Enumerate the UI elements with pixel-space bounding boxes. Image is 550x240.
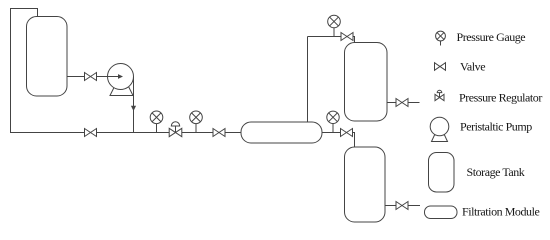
storage tank T3 (lower right): [345, 147, 386, 222]
valve V5 (module outlet): [341, 129, 353, 137]
pressure gauge G4 (module outlet): [327, 111, 339, 132]
peristaltic pump P1: [108, 64, 134, 96]
valve V6 (upper tank outlet): [396, 99, 408, 107]
svg-text:Peristaltic Pump: Peristaltic Pump: [460, 120, 532, 134]
svg-text:Valve: Valve: [460, 60, 485, 74]
svg-text:Pressure Gauge: Pressure Gauge: [457, 30, 526, 44]
svg-text:Storage Tank: Storage Tank: [467, 165, 525, 179]
wire recirculation loop and main feed line: [11, 9, 242, 133]
legend storage tank icon: [429, 153, 455, 193]
pressure gauge G2: [190, 111, 203, 133]
valve V4 (top branch): [341, 33, 353, 41]
pressure gauge G1: [150, 111, 163, 133]
valve V3 (before module): [213, 129, 225, 137]
wire module outlet to bottom tank: [322, 133, 355, 148]
wire upper tank outlet: [387, 102, 420, 104]
legend filtration module icon: [425, 206, 458, 219]
wire module top branch riser: [307, 37, 309, 123]
storage tank T1: [27, 17, 68, 97]
pressure gauge G3 (top branch): [328, 15, 341, 36]
valve V2 (main line): [85, 129, 97, 137]
svg-text:Pressure Regulator: Pressure Regulator: [459, 91, 542, 105]
legend valve icon: [435, 63, 446, 71]
legend pressure gauge icon: [436, 31, 446, 45]
valve V1 (tank T1 outlet): [85, 73, 97, 81]
wire top branch to upper tank: [308, 37, 355, 43]
legend pressure regulator icon: [435, 90, 444, 100]
svg-text:Filtration Module: Filtration Module: [462, 205, 539, 219]
pressure regulator R1: [169, 122, 182, 137]
wire tank T1 outlet to pump: [67, 76, 118, 78]
arrowhead on pump down line: [131, 106, 136, 111]
valve V7 (lower tank outlet): [396, 202, 408, 210]
filtration module M1: [241, 122, 322, 143]
legend peristaltic pump icon: [430, 117, 449, 141]
storage tank T2 (upper right): [345, 43, 388, 122]
wire pump outlet down to main line: [133, 77, 135, 133]
wire lower tank outlet: [385, 205, 420, 207]
